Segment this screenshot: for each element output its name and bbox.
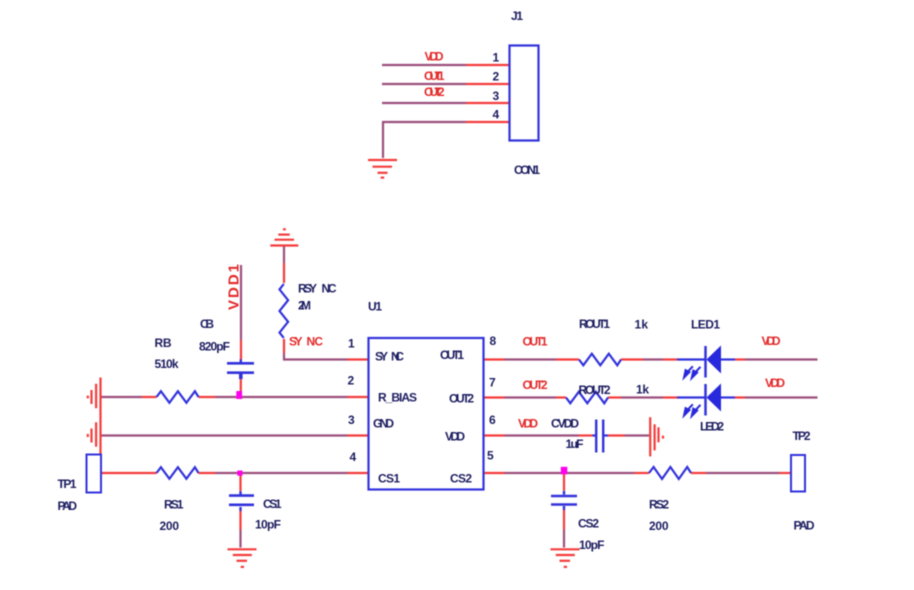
svg-text:PAD: PAD bbox=[794, 519, 815, 533]
svg-text:5: 5 bbox=[487, 449, 494, 463]
svg-text:CB: CB bbox=[200, 317, 214, 331]
svg-text:2: 2 bbox=[348, 374, 355, 388]
svg-text:820pF: 820pF bbox=[199, 340, 230, 354]
svg-text:LED2: LED2 bbox=[700, 420, 724, 434]
svg-text:CS2: CS2 bbox=[450, 472, 472, 486]
svg-text:3: 3 bbox=[348, 413, 355, 427]
svg-text:ROUT2: ROUT2 bbox=[579, 383, 611, 397]
svg-text:VDD: VDD bbox=[762, 334, 781, 348]
svg-text:2M: 2M bbox=[298, 299, 311, 313]
svg-text:2: 2 bbox=[493, 70, 500, 84]
svg-text:VDD: VDD bbox=[425, 50, 444, 64]
svg-text:ROUT1: ROUT1 bbox=[579, 317, 610, 331]
svg-text:NC: NC bbox=[307, 335, 324, 349]
svg-text:200: 200 bbox=[649, 519, 669, 533]
svg-text:OUT2: OUT2 bbox=[523, 378, 548, 392]
svg-text:NC: NC bbox=[322, 282, 337, 296]
svg-text:SY: SY bbox=[289, 335, 303, 349]
svg-text:SY: SY bbox=[375, 350, 388, 364]
svg-text:3: 3 bbox=[493, 89, 500, 103]
svg-text:4: 4 bbox=[350, 450, 357, 464]
svg-text:RS1: RS1 bbox=[164, 498, 184, 512]
svg-text:1: 1 bbox=[348, 337, 355, 351]
svg-text:TP1: TP1 bbox=[58, 477, 77, 491]
svg-text:OUT1: OUT1 bbox=[424, 69, 445, 83]
svg-text:CS2: CS2 bbox=[578, 517, 599, 531]
svg-text:RS2: RS2 bbox=[649, 498, 669, 512]
svg-text:GND: GND bbox=[373, 417, 394, 431]
svg-text:CON1: CON1 bbox=[514, 163, 540, 177]
svg-text:VDD: VDD bbox=[765, 376, 785, 390]
svg-text:6: 6 bbox=[489, 413, 496, 427]
svg-text:1k: 1k bbox=[635, 318, 649, 332]
svg-text:1uF: 1uF bbox=[566, 437, 584, 451]
svg-text:10pF: 10pF bbox=[255, 518, 281, 532]
svg-text:CVDD: CVDD bbox=[551, 417, 579, 431]
svg-text:OUT1: OUT1 bbox=[523, 335, 548, 349]
svg-text:VDD: VDD bbox=[445, 430, 465, 444]
svg-text:RB: RB bbox=[155, 336, 172, 350]
svg-text:OUT2: OUT2 bbox=[424, 85, 445, 99]
svg-text:OUT2: OUT2 bbox=[449, 392, 474, 406]
svg-text:510k: 510k bbox=[155, 357, 179, 371]
svg-text:CS1: CS1 bbox=[378, 472, 400, 486]
svg-text:OUT1: OUT1 bbox=[440, 348, 464, 362]
svg-text:1k: 1k bbox=[636, 383, 649, 397]
svg-text:8: 8 bbox=[490, 334, 497, 348]
svg-text:CS1: CS1 bbox=[263, 497, 282, 511]
svg-text:J1: J1 bbox=[511, 9, 523, 23]
svg-text:RSY: RSY bbox=[298, 282, 317, 296]
svg-text:10pF: 10pF bbox=[579, 538, 605, 552]
svg-text:200: 200 bbox=[160, 519, 180, 533]
svg-text:PAD: PAD bbox=[58, 499, 78, 513]
svg-text:R_BIAS: R_BIAS bbox=[378, 391, 417, 405]
svg-text:NC: NC bbox=[391, 350, 404, 364]
svg-text:1: 1 bbox=[493, 51, 500, 65]
svg-text:7: 7 bbox=[489, 376, 496, 390]
svg-text:4: 4 bbox=[493, 108, 500, 122]
svg-text:U1: U1 bbox=[368, 300, 382, 314]
svg-text:VDD: VDD bbox=[518, 417, 538, 431]
svg-text:LED1: LED1 bbox=[691, 318, 720, 332]
svg-text:TP2: TP2 bbox=[793, 429, 811, 443]
